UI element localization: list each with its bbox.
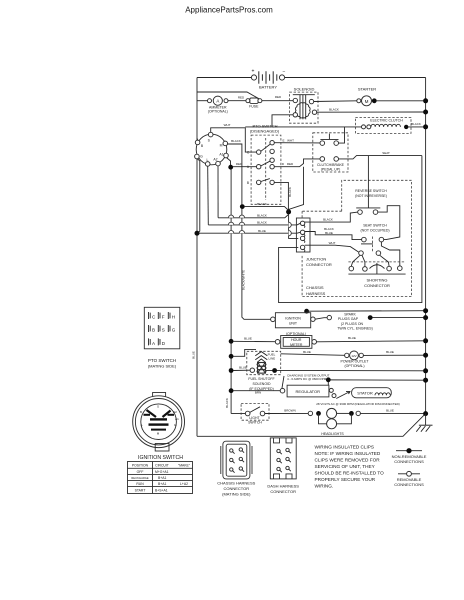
- svg-text:A: A: [216, 99, 219, 104]
- node: bus-starter: [423, 98, 428, 103]
- svg-text:(MATING SIDE): (MATING SIDE): [222, 492, 251, 497]
- svg-text:BATTERY: BATTERY: [259, 85, 277, 90]
- wire: clutch/brake top-right up to clutch line: [339, 127, 345, 143]
- svg-text:BLACK: BLACK: [225, 398, 229, 408]
- node: bus-hour: [423, 338, 428, 343]
- svg-text:METER: METER: [290, 343, 303, 347]
- ammeter A (optional): [208, 96, 229, 113]
- svg-text:SOLENOID: SOLENOID: [294, 87, 315, 92]
- svg-text:WHT: WHT: [287, 138, 294, 142]
- svg-text:E: E: [282, 138, 284, 142]
- fuel components dashed box: [247, 351, 281, 374]
- svg-text:L: L: [207, 158, 209, 162]
- svg-text:NOTE: IF WIRING INSULATED: NOTE: IF WIRING INSULATED: [315, 451, 381, 456]
- svg-text:BLACK: BLACK: [257, 213, 267, 217]
- wire: clutch white feed: [245, 126, 361, 128]
- svg-text:PLUGS GAP: PLUGS GAP: [338, 317, 359, 321]
- svg-text:M: M: [220, 144, 223, 148]
- svg-text:RED: RED: [287, 162, 294, 166]
- svg-text:SWITCH: SWITCH: [248, 421, 262, 425]
- svg-text:BLACK: BLACK: [329, 107, 339, 111]
- wire: junction out row1 to reverse switch: [305, 212, 358, 222]
- svg-text:REGULATOR: REGULATOR: [296, 389, 321, 394]
- svg-text:REV/CHARGE: REV/CHARGE: [131, 476, 148, 480]
- wire: row3 L to junction pin1: [208, 223, 300, 225]
- fuel line filter: [255, 352, 275, 363]
- svg-text:RED: RED: [238, 96, 245, 100]
- svg-text:CONNECTIONS: CONNECTIONS: [394, 482, 424, 487]
- node: bus-spark: [423, 315, 428, 320]
- electric clutch (dashed box): [355, 118, 411, 134]
- svg-text:SHORTING: SHORTING: [366, 277, 387, 282]
- node: bus-solenoid: [423, 110, 428, 115]
- wire: fuel solenoid to bus: [266, 369, 426, 371]
- wire: ignition unit top row to bus: [307, 310, 426, 313]
- wire: solenoid lower-left lead: [272, 115, 293, 127]
- svg-text:G: G: [200, 155, 203, 159]
- svg-text:CONNECTOR: CONNECTOR: [223, 486, 249, 491]
- headlights: [308, 408, 360, 435]
- svg-text:+: +: [252, 68, 255, 74]
- wire: PTO D red to clutch/brake lower-left and down: [274, 159, 320, 167]
- svg-text:OFF: OFF: [137, 470, 144, 474]
- svg-text:BLUE: BLUE: [192, 351, 196, 359]
- svg-text:HOUR: HOUR: [291, 338, 302, 342]
- wire: row2 A2 black: [218, 215, 288, 218]
- node: fuel right: [272, 368, 277, 373]
- svg-text:HEADLIGHTS: HEADLIGHTS: [321, 432, 344, 436]
- svg-text:WHT: WHT: [224, 123, 231, 127]
- svg-text:SOLENOID: SOLENOID: [252, 382, 271, 386]
- wire: outlet row: [281, 354, 345, 356]
- svg-text:CONNECTOR: CONNECTOR: [364, 283, 390, 288]
- wire: G down to rail: [198, 159, 200, 233]
- node: bus-outlet: [423, 353, 428, 358]
- node: bus-clutch: [423, 124, 428, 129]
- wire: L down then to junction row: [207, 166, 210, 225]
- pin B: [195, 140, 200, 145]
- pin M: [223, 141, 228, 146]
- wire: battery positive to left rail: [197, 77, 252, 79]
- ground: [416, 414, 432, 432]
- svg-text:BRN: BRN: [255, 391, 261, 395]
- wire: clutch/brake bottom-right to seat line: [339, 156, 422, 159]
- svg-text:B+S+A1: B+S+A1: [155, 488, 168, 492]
- svg-text:B: B: [152, 328, 155, 333]
- svg-text:SEAT SWITCH: SEAT SWITCH: [363, 224, 387, 228]
- svg-text:POSITION: POSITION: [132, 464, 149, 468]
- node: bus-fuel: [423, 368, 428, 373]
- regulator box: [280, 376, 329, 397]
- svg-text:AppliancePartsPros.com: AppliancePartsPros.com: [185, 6, 273, 15]
- dash harness connector: [267, 438, 299, 494]
- svg-text:A2: A2: [213, 158, 217, 162]
- svg-text:BLUE: BLUE: [386, 409, 394, 413]
- regulator output pins: [329, 388, 333, 392]
- battery B1: [251, 68, 285, 89]
- svg-text:FUEL SHUTOFF: FUEL SHUTOFF: [248, 377, 274, 381]
- hour meter (optional): [275, 332, 316, 349]
- wire: row1 black to node: [244, 207, 289, 211]
- wire: A1 red to PTO A: [233, 166, 257, 168]
- wire: node down to junction connector pin3: [289, 214, 299, 238]
- wire: starter to bus: [376, 100, 426, 102]
- node: ignition unit top: [304, 309, 309, 314]
- wire: rail into pin B: [196, 138, 199, 140]
- wire: ammeter row: [197, 100, 208, 102]
- wire: right bus (vertical): [425, 78, 427, 414]
- wire: ammeter to fuse: [228, 100, 246, 102]
- svg-text:BLACK: BLACK: [257, 221, 267, 225]
- wire: D branch down to node: [289, 167, 304, 212]
- pin G: [195, 154, 200, 159]
- svg-text:CIRCUIT: CIRCUIT: [155, 464, 169, 468]
- svg-text:BROWN: BROWN: [284, 409, 296, 413]
- svg-text:STATOR: STATOR: [357, 391, 373, 396]
- svg-text:B+A1: B+A1: [158, 476, 167, 480]
- wire: ignition unit to spark plug: [311, 317, 315, 321]
- svg-text:BLUE: BLUE: [303, 350, 311, 354]
- svg-text:BLUE: BLUE: [258, 229, 266, 233]
- svg-text:B: B: [140, 410, 142, 414]
- power outlet (optional): [340, 351, 369, 368]
- pin A1: [224, 153, 229, 158]
- svg-text:BLUE: BLUE: [325, 231, 333, 235]
- wire hops: [228, 215, 233, 218]
- svg-text:TWIN CYL. ENGINES): TWIN CYL. ENGINES): [337, 327, 373, 331]
- wire: clutch to bus: [408, 126, 426, 128]
- svg-text:G: G: [172, 328, 176, 333]
- wire: M black down to ignition unit: [227, 144, 270, 319]
- svg-text:BLACK: BLACK: [257, 202, 267, 206]
- wire: row4 rail to junction pin2: [199, 231, 300, 234]
- wire: outlet to bus: [363, 354, 425, 356]
- svg-text:SERVICING OF UNIT, THEY: SERVICING OF UNIT, THEY: [315, 464, 376, 469]
- wire: left rail (vertical): [196, 78, 198, 437]
- wire: junction out row2 to seat switch: [305, 232, 362, 240]
- node: bus-regulator: [423, 378, 428, 383]
- svg-text:A2: A2: [173, 410, 177, 414]
- svg-text:M+G+A1: M+G+A1: [155, 470, 169, 474]
- svg-text:CHASSIS HARNESS: CHASSIS HARNESS: [217, 481, 255, 486]
- wire: to hour meter: [233, 340, 275, 342]
- svg-text:28 VOLTS AC @ 3600 RPM (REGULA: 28 VOLTS AC @ 3600 RPM (REGULATOR DISCON…: [316, 402, 400, 406]
- svg-text:(OPTIONAL): (OPTIONAL): [208, 109, 228, 113]
- node: black junction: [286, 209, 291, 214]
- pin S: [208, 132, 213, 137]
- wire: solenoid to starter: [314, 100, 357, 103]
- svg-text:BLACK: BLACK: [323, 218, 333, 222]
- svg-text:IGNITION: IGNITION: [285, 316, 301, 320]
- solenoid (dashed box): [290, 87, 319, 124]
- spark plug gap: [327, 315, 331, 319]
- wire: regulator top to bus: [328, 380, 425, 385]
- svg-text:CHASSIS: CHASSIS: [306, 285, 324, 290]
- stator: [352, 388, 392, 398]
- wire: A1 down long vertical: [227, 158, 231, 167]
- node: regulator top: [326, 377, 331, 382]
- wire: ammeter bypass: [197, 92, 262, 100]
- node: fuel-sol tap: [229, 368, 234, 373]
- ignition switch SW1 body: [196, 134, 227, 165]
- svg-text:WIRING INSULATED CLIPS: WIRING INSULATED CLIPS: [315, 445, 375, 450]
- wire: outer ground path right side: [279, 156, 422, 303]
- starter M: [357, 87, 376, 106]
- wire: light switch to headlights: [265, 412, 308, 414]
- svg-text:BLUE: BLUE: [244, 336, 252, 340]
- svg-text:L+A2: L+A2: [180, 482, 188, 486]
- svg-text:BLACK: BLACK: [411, 122, 421, 126]
- pins row1: C F H: [149, 312, 176, 346]
- svg-text:REVERSE SWITCH: REVERSE SWITCH: [355, 189, 387, 193]
- svg-text:12V: 12V: [351, 354, 356, 358]
- svg-text:M: M: [365, 99, 369, 104]
- pin L: [205, 162, 210, 167]
- wire: solenoid black to bus: [317, 111, 426, 113]
- node: fuel-line tap: [229, 354, 234, 359]
- svg-text:(NOT OCCUPIED): (NOT OCCUPIED): [360, 229, 389, 233]
- chassis harness connector (mating side): [217, 441, 255, 496]
- non-removable connection symbol: [392, 448, 427, 464]
- svg-text:LIGHT: LIGHT: [249, 416, 260, 420]
- svg-text:SEAT: SEAT: [382, 151, 390, 155]
- svg-text:SPARK: SPARK: [344, 312, 356, 316]
- wire: hour meter to bus: [316, 341, 425, 342]
- svg-text:S: S: [157, 405, 159, 409]
- svg-text:CONNECTOR: CONNECTOR: [306, 262, 332, 267]
- svg-text:DASH HARNESS: DASH HARNESS: [267, 484, 299, 489]
- svg-text:JUNCTION: JUNCTION: [306, 257, 326, 262]
- removable connection symbol: [394, 471, 424, 487]
- svg-text:S: S: [162, 328, 165, 333]
- wire: reverse right to seat right: [378, 206, 400, 240]
- svg-text:A1: A1: [175, 417, 179, 421]
- svg-text:A1: A1: [219, 153, 223, 157]
- svg-text:RED: RED: [275, 95, 282, 99]
- svg-text:PROPERLY SECURE YOUR: PROPERLY SECURE YOUR: [315, 477, 376, 482]
- fuel shutoff solenoid: [248, 362, 274, 391]
- wire: to regulator: [233, 390, 280, 392]
- svg-text:BLACK/WHITE: BLACK/WHITE: [242, 270, 246, 290]
- svg-text:CONNECTIONS: CONNECTIONS: [394, 459, 424, 464]
- svg-text:"MAKE": "MAKE": [178, 464, 191, 468]
- svg-text:(OPTIONAL): (OPTIONAL): [344, 364, 364, 368]
- svg-text:BLUE: BLUE: [348, 336, 356, 340]
- wire: S white to PTO C: [211, 128, 257, 152]
- node: A1 junction: [228, 165, 233, 170]
- node: A1 hour tap: [229, 339, 234, 344]
- light switch (dashed box): [241, 403, 269, 424]
- ignition unit box: [271, 313, 311, 328]
- fuse F1: [246, 98, 262, 108]
- svg-text:CLIPS WERE REMOVED FOR: CLIPS WERE REMOVED FOR: [315, 458, 381, 463]
- node: bus ground-row: [423, 308, 428, 313]
- svg-text:CLUTCH/BRAKE: CLUTCH/BRAKE: [317, 163, 345, 167]
- wire: spark to bus: [372, 317, 425, 319]
- svg-text:UNIT: UNIT: [289, 322, 298, 326]
- svg-text:WIRING.: WIRING.: [315, 484, 334, 489]
- wire: bottom boundary to ground diagonal: [197, 414, 426, 437]
- node: M-wire junction: [240, 204, 245, 209]
- svg-text:(DISENGAGED): (DISENGAGED): [250, 129, 280, 134]
- svg-text:(2 PLUGS ON: (2 PLUGS ON: [341, 322, 364, 326]
- svg-text:SHOULD BE RE-INSTALLED TO: SHOULD BE RE-INSTALLED TO: [315, 471, 385, 476]
- node: bus-headlights: [423, 411, 428, 416]
- svg-text:ELECTRIC CLUTCH: ELECTRIC CLUTCH: [370, 119, 403, 123]
- svg-text:BLUE: BLUE: [239, 365, 247, 369]
- svg-text:BLUE: BLUE: [386, 350, 394, 354]
- ignition switch table: [128, 462, 193, 494]
- svg-text:F: F: [162, 315, 165, 320]
- svg-text:−: −: [283, 69, 286, 75]
- svg-text:(NOT IN REVERSE): (NOT IN REVERSE): [355, 194, 387, 198]
- svg-text:PTO SWITCH: PTO SWITCH: [148, 358, 176, 363]
- wire: A2 down: [217, 166, 219, 218]
- svg-text:B: B: [247, 181, 249, 185]
- svg-text:IGNITION SWITCH: IGNITION SWITCH: [138, 455, 183, 461]
- svg-text:H: H: [172, 315, 175, 320]
- wire: fuse to solenoid: [262, 100, 293, 102]
- svg-text:FUSE: FUSE: [249, 104, 259, 108]
- svg-text:RUN: RUN: [136, 482, 144, 486]
- svg-text:STARTER: STARTER: [358, 87, 376, 92]
- node: starter output: [372, 98, 377, 103]
- svg-text:WHT: WHT: [329, 241, 336, 245]
- wire: PTO E white to clutch/brake: [274, 142, 320, 144]
- svg-text:(MATING SIDE): (MATING SIDE): [148, 364, 177, 369]
- wire: to fuel solenoid: [233, 369, 250, 371]
- node: rail junction: [195, 231, 200, 236]
- svg-text:HARNESS: HARNESS: [306, 291, 326, 296]
- wire: headlights to bus: [360, 412, 425, 414]
- wire: PTO B black down: [274, 182, 288, 210]
- node: regulator tap: [229, 388, 234, 393]
- svg-text:LINE: LINE: [268, 356, 275, 360]
- svg-text:START: START: [135, 488, 146, 492]
- key slots: [147, 410, 157, 417]
- svg-text:B+A1: B+A1: [158, 482, 167, 486]
- wire: seat pole wires to shorting pins: [351, 255, 360, 266]
- wire: junction out row4 to shorting: [305, 245, 359, 252]
- svg-text:CONNECTOR: CONNECTOR: [270, 489, 296, 494]
- svg-text:POWER OUTLET: POWER OUTLET: [340, 360, 369, 364]
- arrow to stator: [336, 392, 350, 399]
- chassis harness dashed boundary: [302, 180, 412, 296]
- svg-text:BLACK: BLACK: [231, 139, 241, 143]
- pin A2: [216, 161, 221, 166]
- svg-text:4 - 6 AMPS DC @ 3600 RPM: 4 - 6 AMPS DC @ 3600 RPM: [287, 377, 327, 381]
- svg-text:(PEDAL UP): (PEDAL UP): [321, 168, 341, 172]
- svg-text:RED: RED: [236, 162, 243, 166]
- wire: battery negative to right bus top: [285, 77, 426, 79]
- svg-text:BLACK: BLACK: [288, 187, 292, 197]
- wire: to fuel line: [233, 349, 256, 356]
